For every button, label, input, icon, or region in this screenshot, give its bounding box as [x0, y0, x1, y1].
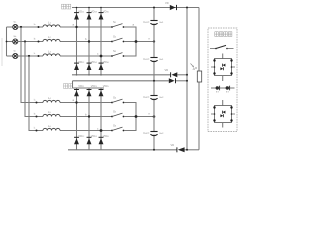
- label A with arrow: [191, 64, 196, 72]
- diode VD13: [87, 13, 92, 20]
- converter block U2: [211, 106, 235, 123]
- label top bridge (CJK): [62, 4, 71, 9]
- converter block U1: [211, 59, 235, 76]
- wire phase c source to inductor: [18, 55, 43, 57]
- wire phase c inductor to switch: [60, 55, 112, 57]
- node cap chain bottom: [153, 149, 155, 151]
- wire phase a to common: [125, 27, 137, 42]
- switch S6: [111, 127, 124, 131]
- node sense b: [38, 41, 40, 43]
- node neutral junction: [6, 41, 8, 43]
- node leg3 phase: [100, 55, 103, 58]
- wire bridge2 bus stub: [72, 81, 74, 88]
- node leg2 phase: [88, 40, 90, 42]
- diode D rail2: [169, 78, 176, 83]
- source uc: [13, 53, 18, 58]
- node cap mid bottom: [153, 115, 156, 118]
- node v1 bottom: [186, 149, 188, 151]
- wire cap chain: [153, 8, 155, 150]
- label load box title (CJK): [215, 32, 232, 37]
- wire phase c2 to common: [125, 117, 137, 131]
- capacitor Cd1: [143, 20, 164, 24]
- node leg2 bottom bus: [88, 74, 90, 76]
- diode D rail1: [171, 72, 178, 77]
- wire tap b down: [25, 42, 43, 117]
- switch S4: [111, 99, 124, 103]
- wire neutral stub a: [7, 26, 13, 28]
- capacitor Ca in box: [216, 86, 220, 93]
- diode VD16: [99, 63, 104, 70]
- wire phase a2 inductor to switch: [60, 102, 112, 104]
- wire tap a down: [21, 27, 43, 103]
- node sense c2: [36, 130, 38, 132]
- diode VD0 top bus: [170, 5, 177, 10]
- switch S0 in load box: [210, 45, 234, 49]
- wire phase c2 inductor to switch: [60, 130, 112, 132]
- wire bridge2 leg 3: [100, 88, 102, 150]
- inductor L1: [43, 25, 60, 27]
- wire v2 bottom segment: [198, 82, 200, 150]
- wire phase a source to inductor: [18, 26, 43, 28]
- svg-text:VD: VD: [171, 143, 175, 147]
- capacitor Cb in box: [226, 86, 230, 93]
- node leg1 phase: [75, 26, 77, 28]
- wire phase b inductor to switch: [60, 41, 112, 43]
- diode VD12: [74, 63, 79, 70]
- node leg3 top bus: [100, 7, 102, 9]
- node v1 rail1: [186, 74, 188, 76]
- node tap b: [24, 40, 26, 42]
- wire caps row lead: [211, 87, 235, 89]
- label bottom bridge (CJK): [64, 84, 73, 89]
- diode D bottom: [177, 147, 185, 152]
- svg-text:VD: VD: [165, 1, 169, 5]
- wire phase a inductor to switch: [60, 26, 112, 28]
- inductor L6: [43, 128, 60, 130]
- switch S2: [111, 38, 124, 42]
- wire phase b to cap node: [125, 41, 155, 43]
- capacitor Cd3: [143, 95, 164, 100]
- wire bottom bus: [68, 149, 177, 151]
- wire block2 top stub: [222, 100, 224, 106]
- diode VD22: [74, 137, 79, 144]
- node leg3 bottom bus: [100, 74, 102, 76]
- node leg2 top bus: [88, 7, 90, 9]
- diode VD23: [87, 90, 92, 97]
- wire rail1 after diode: [177, 74, 187, 76]
- source ub: [13, 39, 18, 44]
- wire v1 rail: [186, 8, 188, 150]
- wire bottom bus after diode: [185, 149, 199, 151]
- wire left edge artifact: [1, 38, 3, 66]
- wire bridge2 leg 1: [76, 88, 78, 150]
- wire block2 bottom stub: [222, 123, 224, 128]
- wire phase c to common: [125, 42, 137, 57]
- wire neutral stub c: [7, 55, 13, 57]
- wire neutral stub b: [7, 41, 13, 43]
- inductor L5: [43, 114, 60, 116]
- diode VD25: [99, 90, 104, 97]
- wire v2 top segment: [198, 8, 200, 72]
- wire bridge2 leg 2: [88, 88, 90, 150]
- capacitor Cd2: [143, 57, 164, 62]
- wire rail2 after diode: [176, 80, 188, 82]
- node cap mid top: [153, 40, 155, 42]
- load box border: [208, 28, 237, 132]
- node leg21 phase: [75, 101, 77, 103]
- wire block1 top stub: [222, 54, 224, 59]
- node leg22 phase: [88, 115, 90, 117]
- wire tap c down: [29, 56, 43, 131]
- diode VD14: [87, 63, 92, 70]
- source ua: [13, 24, 18, 29]
- wire top dc+ bus: [72, 7, 199, 9]
- diode VD21: [74, 90, 79, 97]
- svg-text:VD: VD: [165, 68, 169, 72]
- node sense c: [38, 55, 40, 57]
- node v1 top: [186, 7, 188, 9]
- node tap c: [28, 55, 30, 57]
- inductor L3: [43, 54, 60, 56]
- node leg1 top bus: [76, 7, 78, 9]
- wire rail2: [73, 80, 169, 82]
- node sense a: [38, 26, 40, 28]
- wire phase b2 inductor to switch: [60, 116, 112, 118]
- node sense b2: [36, 116, 38, 118]
- wire bridge1 leg 2: [88, 8, 90, 75]
- wire bridge1 leg 3: [100, 8, 102, 75]
- wire rail1 dc-: [72, 74, 171, 76]
- node cap chain rail2: [153, 80, 155, 82]
- wire phase b source to inductor: [18, 41, 43, 43]
- switch S1: [111, 24, 124, 28]
- node switch common top: [135, 40, 138, 43]
- node sense a2: [36, 102, 38, 104]
- resistor R: [197, 71, 201, 82]
- wire bridge2 top bus: [73, 87, 104, 89]
- node tap a: [20, 26, 22, 28]
- wire bridge1 leg 1: [76, 8, 78, 75]
- wire block1 bottom stub: [222, 76, 224, 82]
- node switch common bottom: [135, 115, 138, 118]
- node cap chain top: [153, 7, 155, 9]
- inductor L4: [43, 100, 60, 102]
- diode VD11: [74, 13, 79, 20]
- node v1 rail2: [186, 80, 188, 82]
- inductor L2: [43, 39, 60, 41]
- switch S3: [111, 53, 124, 57]
- wire neutral bus: [6, 27, 8, 56]
- diode VD15: [99, 13, 104, 20]
- capacitor Cd4: [143, 131, 164, 136]
- node leg1 bottom bus: [76, 74, 78, 76]
- switch S5: [111, 113, 124, 117]
- wire phase b2 to cap node: [125, 116, 155, 118]
- diode VD24: [87, 137, 92, 144]
- wire phase a2 to common: [125, 103, 137, 117]
- diode VD26: [99, 137, 104, 144]
- node leg23 phase: [100, 129, 103, 132]
